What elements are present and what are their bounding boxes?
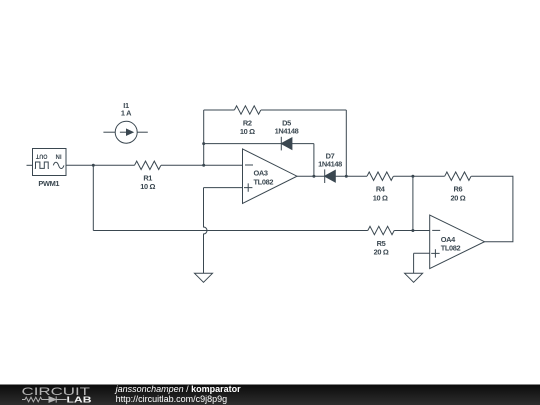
resistor R4 bbox=[367, 172, 393, 180]
node junction at OA4 inverting input bbox=[411, 229, 414, 232]
svg-text:PWM1: PWM1 bbox=[38, 179, 59, 188]
svg-text:20 Ω: 20 Ω bbox=[374, 248, 389, 257]
svg-text:10 Ω: 10 Ω bbox=[240, 127, 255, 136]
wire top feedback to R2 bbox=[204, 109, 235, 111]
node junction at inverting input bbox=[202, 164, 205, 167]
resistor R6 bbox=[445, 172, 471, 180]
svg-text:TL082: TL082 bbox=[254, 177, 274, 186]
wire right vertical of R2 loop bbox=[345, 110, 347, 176]
svg-text:OA4: OA4 bbox=[441, 235, 456, 244]
svg-text:20 Ω: 20 Ω bbox=[450, 193, 465, 202]
wire R5 to OA4 inverting input bbox=[394, 230, 430, 232]
footer bar bbox=[0, 385, 540, 405]
svg-text:1N4148: 1N4148 bbox=[318, 160, 342, 169]
wire R6 to OA4 output bbox=[471, 176, 513, 242]
svg-text:OUT: OUT bbox=[35, 153, 47, 160]
svg-text:IN: IN bbox=[56, 153, 62, 160]
wire D5 branch left segment bbox=[204, 143, 282, 145]
wire R2 to right vertical bbox=[261, 109, 346, 111]
op-amp OA3 bbox=[243, 149, 298, 204]
node junction R4/R6/feedback bbox=[411, 175, 414, 178]
wire PWM1 out to R1 bbox=[66, 164, 135, 166]
svg-text:OA3: OA3 bbox=[254, 169, 268, 178]
svg-text:TL082: TL082 bbox=[441, 244, 461, 253]
wire junction down to OA4 inverting input bbox=[412, 176, 414, 230]
diode D5 bbox=[281, 137, 314, 151]
svg-text:10 Ω: 10 Ω bbox=[140, 182, 155, 191]
wire D5 down to OA3 output bbox=[313, 144, 315, 177]
svg-text:http://circuitlab.com/c9j8p9g: http://circuitlab.com/c9j8p9g bbox=[116, 394, 228, 404]
wire OA3 output bbox=[297, 175, 325, 177]
wire R1 to OA3 inverting input bbox=[161, 164, 243, 166]
svg-text:LAB: LAB bbox=[67, 396, 92, 405]
CircuitLab logo resistor-diode squiggle bbox=[22, 396, 67, 402]
wire left vertical of feedback node bbox=[203, 110, 205, 165]
svg-text:10 Ω: 10 Ω bbox=[373, 193, 388, 202]
node junction at OA3 output bbox=[312, 175, 315, 178]
wire OA4 plus input bbox=[414, 252, 430, 254]
resistor R2 bbox=[234, 106, 260, 114]
svg-text:1N4148: 1N4148 bbox=[275, 127, 299, 136]
wire junction down to bottom rail bbox=[92, 165, 94, 230]
svg-text:1 A: 1 A bbox=[121, 109, 132, 118]
wire R4 to R6 bbox=[394, 175, 445, 177]
wire OA3 plus input bbox=[204, 187, 243, 189]
ground symbol at OA3 bbox=[195, 273, 213, 282]
node junction below PWM1 bbox=[92, 164, 95, 167]
svg-text:janssonchampen / komparator: janssonchampen / komparator bbox=[115, 384, 242, 394]
wire OA4 plus input down to ground bbox=[413, 253, 415, 273]
current source I1 bbox=[103, 121, 147, 143]
diode D7 bbox=[325, 169, 336, 183]
wire D7 to R4 bbox=[335, 175, 367, 177]
wire bottom rail to R5 bbox=[93, 230, 368, 232]
resistor R5 bbox=[368, 226, 394, 234]
resistor R1 bbox=[135, 161, 161, 169]
wire OA3 plus to ground with hop over bottom rail bbox=[204, 188, 208, 274]
PWM source PWM1 bbox=[27, 149, 67, 176]
op-amp OA4 bbox=[430, 215, 485, 269]
node junction R2 loop at output line bbox=[345, 175, 348, 178]
ground symbol at OA4 bbox=[405, 273, 423, 282]
node junction at D5 branch bbox=[202, 142, 205, 145]
